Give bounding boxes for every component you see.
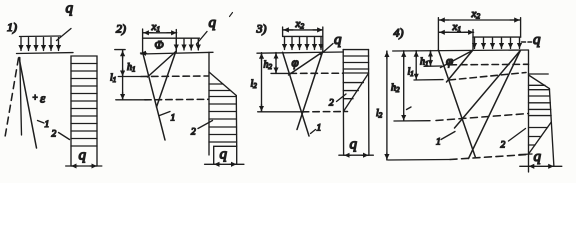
svg-text:4): 4)	[394, 26, 404, 40]
fig2 wall-top extension vertical	[142, 29, 144, 54]
fig4 label phi	[446, 53, 453, 68]
fig4 dimension h1 line with arrows	[430, 51, 432, 66]
fig3 level l2 tick solid part	[258, 111, 303, 113]
fig3 dimension l2 line with arrows	[261, 53, 263, 112]
fig4 label x1	[452, 21, 462, 34]
fig2 pressure diagram right edge	[235, 96, 237, 147]
svg-text:q: q	[66, 1, 74, 17]
svg-text:q: q	[350, 137, 358, 153]
fig2 level l1 dashed part	[145, 98, 209, 101]
fig3 pressure diagram right edge	[368, 50, 370, 156]
fig2 load arrow b1	[175, 39, 177, 50]
fig4 wall line 1	[438, 50, 475, 158]
fig4 load left edge vertical	[472, 30, 474, 51]
fig2 level h1 dashed part	[141, 75, 209, 78]
fig4 ray from near edge to wall at l1	[447, 51, 473, 83]
fig3 load arrow c3	[299, 37, 301, 49]
fig4 load arrow d2	[483, 38, 485, 49]
fig4 label q inside box	[534, 149, 542, 165]
fig3 pressure diagram axis	[342, 50, 344, 156]
fig3 pressure diagram full line at h2	[343, 72, 368, 74]
fig1 pressure diagram hatch lines	[71, 64, 97, 147]
fig4 pressure diagram right edge	[549, 89, 554, 167]
fig3 label q inside box	[350, 137, 358, 153]
fig4 level h2 dashed part	[436, 114, 529, 121]
fig2 label 1 with leader	[160, 112, 176, 124]
fig3 pressure diagram lower hatch lines	[343, 83, 363, 99]
fig2 load arrow b3	[190, 39, 192, 50]
fig3 dimension h2 line with arrows	[275, 53, 277, 74]
fig4 label l1	[408, 67, 414, 79]
fig3 left extension vertical	[282, 27, 284, 36]
fig4 base dimension line with arrows	[520, 165, 562, 167]
fig1 leader to q	[57, 29, 72, 41]
fig3 label 1 with leader	[311, 124, 322, 134]
fig4 label l2	[376, 108, 383, 120]
fig2 label x1	[151, 21, 161, 34]
fig4 dimension x2 line with arrows	[439, 19, 519, 21]
fig1 wall line 1 (slanted)	[19, 58, 37, 149]
fig3 ray from load far edge to wall at h2	[289, 52, 323, 75]
fig1 label 1 with leader	[38, 120, 50, 130]
svg-text:l2: l2	[251, 79, 258, 91]
svg-text:q: q	[533, 32, 541, 48]
fig1 load arrow a3	[35, 38, 37, 51]
fig3 load top line	[283, 35, 323, 37]
fig1 label q inside diagram base	[79, 148, 87, 164]
fig1 base dimension line with arrows	[66, 165, 102, 167]
fig4 label q of load	[533, 32, 541, 48]
fig4 level h1 tick	[424, 65, 442, 67]
fig4 ground surface line	[393, 50, 529, 51]
fig2 level l1 tick solid part	[116, 99, 145, 101]
fig3 right extension vertical	[322, 27, 324, 52]
svg-text:φ: φ	[292, 55, 299, 70]
fig2 load arrow b4	[197, 39, 199, 50]
fig2 label q of load	[209, 15, 217, 31]
fig4 pressure diagram top edge line	[529, 73, 549, 75]
figure 2: strip load at distance x1, label 2)	[116, 22, 126, 36]
fig4 level l2 solid part	[388, 159, 450, 162]
fig4 dimension l2 line with arrows	[386, 51, 388, 160]
svg-text:q: q	[334, 32, 342, 48]
fig4 dashed leader to q	[522, 41, 532, 43]
fig1 load arrow a5	[50, 38, 52, 51]
fig2 pressure diagram axis	[208, 52, 210, 155]
fig1 label q of load	[66, 1, 74, 17]
svg-text:ε: ε	[40, 91, 46, 106]
svg-text:1: 1	[436, 138, 441, 148]
fig2 level h1 tick solid part	[118, 76, 141, 78]
svg-text:l1: l1	[110, 73, 116, 85]
svg-text:q: q	[534, 149, 542, 165]
fig1 load arrow a4	[43, 38, 45, 51]
fig1 load arrow a2	[28, 38, 30, 51]
fig4 pressure diagram upper hypotenuse	[529, 75, 550, 89]
fig4 dimension h2 line with arrows	[403, 51, 405, 121]
fig3 level h2 dashed part	[290, 72, 343, 74]
fig4 load top line	[473, 36, 521, 38]
svg-text:h1: h1	[127, 62, 136, 74]
svg-text:h2: h2	[264, 60, 273, 72]
fig1 label 2 with leader	[52, 130, 70, 140]
fig4 level l1 tick	[414, 79, 443, 81]
fig4 load arrow d4	[501, 38, 503, 49]
svg-text:Φ: Φ	[155, 38, 164, 52]
fig4 label 2 with leader	[501, 129, 526, 151]
fig3 pressure diagram top edge	[343, 49, 368, 51]
stray scan mark near top between fig2 and fig3	[230, 13, 233, 17]
fig4 pressure diagram lower hatch lines	[529, 128, 548, 146]
svg-text:x1: x1	[151, 21, 161, 34]
fig4 load arrow d5	[510, 38, 512, 49]
fig3 leader to q	[321, 44, 334, 55]
svg-text:h2: h2	[391, 83, 400, 95]
svg-text:1: 1	[45, 120, 50, 130]
svg-text:+: +	[32, 93, 38, 103]
fig4 load arrow d1	[474, 38, 476, 49]
fig4 load right edge vertical	[520, 18, 522, 37]
fig3 pressure diagram upper hatch lines	[343, 56, 368, 69]
fig1 load arrow a1	[20, 38, 22, 51]
fig3 load arrow c4	[306, 37, 308, 49]
fig1 load arrow a6	[58, 38, 60, 51]
fig3 pressure diagram taper diagonal	[344, 73, 369, 111]
fig1 pressure diagram outline	[71, 56, 97, 166]
svg-text:2: 2	[501, 141, 506, 151]
fig1 ground surface line	[17, 52, 74, 55]
fig2 top horizontal line over load	[143, 37, 200, 39]
fig2 dimension x1 line with arrows	[143, 32, 176, 34]
fig2 label q inside box	[220, 147, 228, 163]
fig3 label phi	[292, 55, 299, 70]
fig2 ray from load near edge to wall at h1	[148, 52, 176, 78]
fig2 label l1	[110, 73, 116, 85]
fig4 level h2 solid part	[394, 120, 430, 122]
svg-text:2: 2	[329, 99, 334, 109]
fig3 ground surface line	[257, 52, 343, 53]
fig3 label x2	[295, 18, 305, 31]
fig4 label 1 with leader	[436, 132, 455, 148]
fig2 load arrow b2	[183, 39, 185, 50]
fig4 ray from near edge to wall at h1	[441, 51, 473, 68]
svg-text:h1: h1	[420, 57, 429, 69]
fig4 pressure diagram axis	[528, 51, 530, 173]
fig2 pressure diagram hatch lines	[209, 84, 237, 142]
fig4 load arrow d6	[519, 38, 521, 49]
fig2 leader to q	[197, 32, 208, 45]
fig4 level h1 dashed part	[450, 63, 529, 66]
svg-text:1): 1)	[7, 20, 17, 34]
figure 1: wall with surcharge load, label 1)	[7, 20, 17, 34]
fig4 label h1	[420, 57, 429, 69]
fig4 tick at l2 level on axis	[519, 153, 532, 156]
fig4 level l2 dashed part	[450, 155, 528, 160]
fig4 level l1 dashed part	[449, 73, 526, 81]
fig4 pressure diagram upper hatch lines	[529, 85, 552, 115]
fig1 wall axis vertical	[20, 58, 22, 136]
fig4 ray from far edge to wall at h2	[455, 51, 521, 129]
fig2 base dimension line with arrows	[205, 163, 244, 165]
fig4 wall-top extension vertical	[437, 18, 439, 51]
fig2 q box of diagram	[214, 146, 237, 164]
fig2 label 2 with leader	[191, 121, 213, 138]
fig4 label x2	[471, 8, 481, 21]
fig4 pressure diagram lower taper diagonal	[529, 122, 552, 154]
fig2 top extension tick	[115, 49, 125, 51]
svg-text:2: 2	[52, 130, 57, 140]
fig3 label h2	[264, 60, 273, 72]
svg-text:l2: l2	[376, 108, 383, 120]
fig3 load arrow c1	[284, 37, 286, 49]
fig4 load arrow d3	[492, 38, 494, 49]
fig2 pressure diagram hypotenuse	[209, 72, 236, 96]
fig3 load arrow c2	[291, 37, 293, 49]
fig2 label Phi	[155, 38, 164, 52]
svg-text:2): 2)	[116, 22, 126, 36]
fig2 ray from load near edge to wall at l1	[157, 52, 176, 108]
fig3 level l2 dashed part	[302, 111, 347, 113]
figure 4: strip load from x1 to x2, label 4)	[394, 26, 404, 40]
fig4 small tick on h2 line	[407, 107, 412, 110]
fig4 dimension l1 line with arrows	[415, 51, 417, 80]
svg-text:x2: x2	[295, 18, 305, 31]
fig3 label l2	[251, 79, 258, 91]
svg-text:1: 1	[317, 124, 322, 134]
fig3 ray from load far edge to wall at l2	[297, 52, 323, 130]
svg-text:1: 1	[171, 114, 176, 124]
fig1 load top line	[20, 35, 61, 38]
fig1 dashed wall position	[5, 58, 19, 140]
fig3 label 2 with leader	[329, 94, 346, 109]
fig2 wall line 1	[143, 53, 165, 140]
svg-text:q: q	[79, 148, 87, 164]
fig4 label h2	[391, 83, 400, 95]
svg-text:l1: l1	[408, 67, 414, 79]
fig4 dimension x1 line with arrows	[439, 31, 473, 33]
svg-text:3): 3)	[256, 22, 267, 36]
svg-text:x2: x2	[471, 8, 481, 21]
fig3 load arrow c6	[320, 37, 322, 49]
svg-text:x1: x1	[452, 21, 462, 34]
fig3 load arrow c5	[314, 37, 316, 49]
figure 3: strip load adjacent to wall, label 3)	[256, 22, 267, 36]
fig3 wall line 1	[283, 52, 309, 136]
fig1 label +epsilon angle	[32, 91, 46, 106]
fig4 ray from far edge to wall at l2	[469, 51, 521, 159]
fig2 depth dimension line with arrows	[122, 50, 124, 100]
fig2 arrowhead at wall top corner	[141, 52, 147, 54]
fig3 dimension x2 line with arrows	[283, 29, 322, 31]
fig2 ground surface line	[141, 52, 213, 54]
svg-text:q: q	[220, 147, 228, 163]
fig2 load left edge vertical	[175, 30, 177, 52]
svg-text:2: 2	[191, 128, 196, 138]
fig2 label h1	[127, 62, 136, 74]
fig3 level h2 tick solid part	[271, 72, 290, 74]
fig3 label q of load	[334, 32, 342, 48]
svg-text:q: q	[209, 15, 217, 31]
fig3 base dimension line with arrows	[339, 154, 373, 156]
